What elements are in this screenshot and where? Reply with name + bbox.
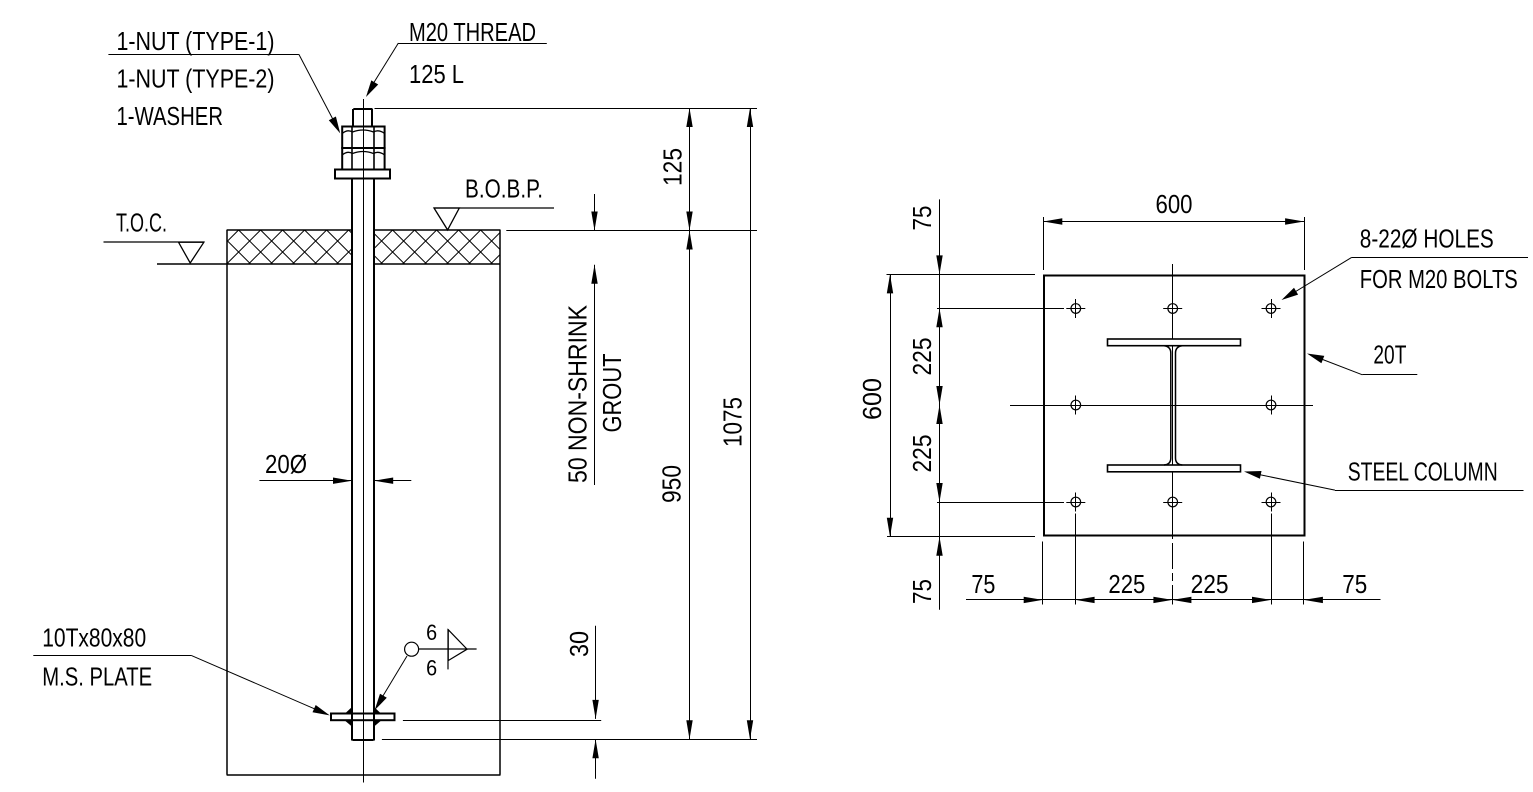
svg-text:75: 75 — [1342, 569, 1367, 599]
svg-text:225: 225 — [1108, 569, 1145, 599]
svg-text:1075: 1075 — [717, 397, 747, 447]
svg-text:75: 75 — [907, 579, 937, 604]
svg-text:10Tx80x80: 10Tx80x80 — [42, 623, 146, 653]
svg-text:30: 30 — [564, 631, 594, 657]
svg-text:600: 600 — [1156, 189, 1193, 219]
svg-text:1-NUT (TYPE-2): 1-NUT (TYPE-2) — [117, 64, 275, 94]
svg-text:225: 225 — [907, 338, 937, 376]
svg-text:B.O.B.P.: B.O.B.P. — [465, 174, 543, 204]
svg-text:20Ø: 20Ø — [265, 449, 307, 479]
svg-text:8-22Ø HOLES: 8-22Ø HOLES — [1360, 224, 1494, 254]
svg-text:1-WASHER: 1-WASHER — [117, 101, 224, 131]
svg-text:T.O.C.: T.O.C. — [116, 208, 167, 238]
svg-text:M.S. PLATE: M.S. PLATE — [42, 662, 152, 692]
svg-text:FOR M20 BOLTS: FOR M20 BOLTS — [1360, 264, 1518, 294]
svg-text:M20 THREAD: M20 THREAD — [409, 17, 536, 47]
svg-text:GROUT: GROUT — [597, 353, 627, 432]
svg-text:950: 950 — [657, 465, 687, 503]
svg-text:225: 225 — [1191, 569, 1229, 599]
svg-text:600: 600 — [857, 378, 887, 420]
svg-text:125 L: 125 L — [409, 59, 464, 89]
svg-text:225: 225 — [907, 435, 937, 473]
svg-text:20T: 20T — [1373, 340, 1406, 370]
svg-text:6: 6 — [426, 656, 437, 681]
svg-text:75: 75 — [907, 206, 937, 231]
svg-text:STEEL COLUMN: STEEL COLUMN — [1348, 457, 1498, 487]
svg-text:6: 6 — [426, 620, 437, 645]
svg-text:75: 75 — [971, 569, 995, 599]
svg-text:50 NON-SHRINK: 50 NON-SHRINK — [563, 304, 593, 483]
svg-text:125: 125 — [658, 148, 688, 186]
svg-text:1-NUT (TYPE-1): 1-NUT (TYPE-1) — [117, 26, 275, 56]
